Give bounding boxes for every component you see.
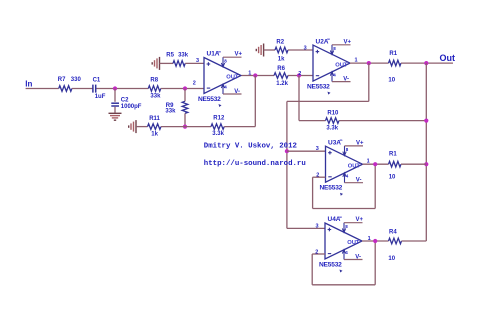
wire node to R10 bbox=[299, 120, 326, 122]
svg-text:2: 2 bbox=[315, 249, 318, 255]
wire node to R12 bbox=[185, 126, 211, 128]
wire R6 to U2A pin2 bbox=[288, 75, 313, 77]
svg-text:2: 2 bbox=[316, 173, 319, 179]
wire R8 to U1A pin2 bbox=[161, 88, 204, 90]
svg-text:10: 10 bbox=[388, 256, 395, 262]
wire ground to R5 bbox=[160, 62, 174, 64]
svg-text:3: 3 bbox=[316, 223, 319, 229]
wire R1 to Out bbox=[401, 62, 453, 64]
svg-text:3: 3 bbox=[304, 45, 307, 51]
svg-text:1k: 1k bbox=[151, 132, 158, 138]
wire U4A fb left down bbox=[311, 254, 313, 285]
svg-text:V+: V+ bbox=[235, 52, 243, 58]
wire C1 to R8 bbox=[97, 88, 149, 90]
svg-text:3: 3 bbox=[316, 146, 319, 152]
svg-text:In: In bbox=[25, 79, 32, 88]
resistor R5 bbox=[173, 61, 185, 67]
svg-text:1000pF: 1000pF bbox=[121, 104, 142, 110]
svg-text:∞: ∞ bbox=[327, 37, 330, 42]
resistor R1 (upper) bbox=[389, 60, 401, 66]
junction Out rail top bbox=[424, 61, 428, 65]
svg-text:NE5532: NE5532 bbox=[319, 262, 342, 269]
junction node R9/R11/R12 bbox=[183, 125, 187, 129]
svg-text:330: 330 bbox=[71, 77, 82, 83]
wire R2 to U2A pin3 bbox=[288, 49, 313, 51]
wire U3A fb right up bbox=[374, 164, 376, 208]
op-amp U2A (NE5532) bbox=[307, 37, 352, 95]
svg-text:1.2k: 1.2k bbox=[276, 81, 288, 87]
svg-text:1: 1 bbox=[368, 236, 371, 242]
junction U1A output bbox=[253, 73, 257, 77]
wire U1A out down to R12 bbox=[254, 76, 256, 127]
svg-text:33k: 33k bbox=[150, 93, 161, 99]
wire U2A out to R1 bbox=[350, 62, 389, 64]
junction R1 lower/Out rail bbox=[424, 162, 428, 166]
svg-text:R12: R12 bbox=[213, 116, 225, 122]
wire U4A out bbox=[362, 240, 389, 242]
wire U3A fb left down bbox=[312, 177, 314, 208]
svg-text:NE5532: NE5532 bbox=[307, 84, 330, 91]
wire U3A pin2 stub bbox=[313, 176, 326, 178]
junction U2A output bbox=[367, 61, 371, 65]
wire U3A out bbox=[363, 163, 389, 165]
junction U3A pin3 tap bbox=[285, 149, 289, 153]
wire C2 to ground bbox=[114, 107, 116, 113]
wire down to C2 bbox=[114, 89, 116, 102]
resistor R6 bbox=[274, 73, 288, 79]
resistor R1 (lower) bbox=[389, 161, 401, 167]
svg-text:C2: C2 bbox=[121, 97, 129, 103]
svg-text:NE5532: NE5532 bbox=[320, 185, 343, 192]
wire to U4A pin3 bbox=[287, 227, 325, 229]
svg-text:R10: R10 bbox=[327, 111, 339, 117]
svg-text:C1: C1 bbox=[93, 77, 101, 83]
svg-text:1k: 1k bbox=[278, 56, 285, 62]
svg-text:V+: V+ bbox=[344, 39, 352, 45]
svg-text:V-: V- bbox=[343, 76, 349, 82]
junction node R8/R9 bbox=[183, 86, 187, 90]
wire U4A fb right up bbox=[374, 241, 376, 285]
svg-text:V-: V- bbox=[355, 254, 361, 260]
svg-text:OUT: OUT bbox=[226, 75, 239, 81]
wire U4A pin2 stub bbox=[312, 253, 325, 255]
wire node to R9 bbox=[184, 89, 186, 102]
wire U1A out bbox=[242, 75, 275, 77]
ground left of R5 bbox=[152, 57, 159, 70]
wire R4 to rail bbox=[402, 240, 427, 242]
svg-text:OUT: OUT bbox=[347, 240, 360, 246]
junction node C2 tap bbox=[113, 86, 117, 90]
svg-text:V+: V+ bbox=[356, 140, 364, 146]
svg-text:http://u-sound.narod.ru: http://u-sound.narod.ru bbox=[204, 160, 306, 168]
resistor R7 bbox=[59, 86, 72, 92]
wire ground to R2 bbox=[264, 49, 275, 51]
wire ground to R11 bbox=[136, 126, 148, 128]
resistor R2 bbox=[275, 47, 288, 53]
wire In to R7 bbox=[26, 88, 59, 90]
svg-text:∞: ∞ bbox=[340, 138, 343, 143]
wire across left bbox=[287, 100, 369, 102]
junction U3A output bbox=[373, 162, 377, 166]
ground left of R2 bbox=[256, 44, 263, 57]
svg-text:1uF: 1uF bbox=[95, 94, 106, 100]
resistor R10 bbox=[326, 118, 339, 124]
svg-text:3: 3 bbox=[196, 58, 199, 64]
op-amp U1A (NE5532) bbox=[198, 49, 243, 107]
svg-text:1: 1 bbox=[248, 71, 251, 77]
svg-text:NE5532: NE5532 bbox=[198, 96, 221, 103]
svg-text:V-: V- bbox=[234, 89, 240, 95]
wire R7 to C1 bbox=[72, 88, 93, 90]
svg-text:V+: V+ bbox=[356, 217, 364, 223]
svg-text:∞: ∞ bbox=[339, 215, 342, 220]
wire R10 to Out rail bbox=[339, 120, 426, 122]
svg-text:R5: R5 bbox=[166, 53, 174, 59]
wire R9 to node bbox=[184, 113, 186, 126]
capacitor C1 bbox=[93, 85, 96, 93]
svg-text:V-: V- bbox=[356, 178, 362, 184]
wire Out rail vertical bbox=[425, 63, 427, 241]
svg-text:R2: R2 bbox=[276, 40, 284, 46]
resistor R11 bbox=[148, 124, 161, 130]
wire to U3A pin3 bbox=[287, 150, 326, 152]
wire U3A fb bottom bbox=[313, 208, 376, 210]
op-amp U4A (NE5532) bbox=[319, 215, 364, 273]
svg-text:10: 10 bbox=[388, 78, 395, 84]
svg-text:OUT: OUT bbox=[348, 163, 361, 169]
wire U2A out down bbox=[368, 63, 370, 101]
svg-text:Out: Out bbox=[440, 53, 456, 63]
svg-text:1: 1 bbox=[367, 158, 370, 164]
wire R11 to node bbox=[161, 126, 185, 128]
resistor R12 bbox=[211, 124, 224, 130]
ground left of R11 bbox=[129, 120, 136, 133]
junction U2A pin2 node bbox=[297, 73, 301, 77]
svg-text:∞: ∞ bbox=[218, 49, 221, 54]
junction U4A output bbox=[373, 239, 377, 243]
svg-text:3.3k: 3.3k bbox=[326, 126, 338, 132]
svg-text:R6: R6 bbox=[277, 66, 285, 72]
resistor R9 bbox=[182, 101, 188, 113]
svg-text:OUT: OUT bbox=[335, 62, 348, 68]
svg-text:R11: R11 bbox=[149, 116, 160, 122]
svg-text:R1: R1 bbox=[389, 51, 397, 57]
capacitor C2 bbox=[111, 103, 119, 106]
svg-text:R8: R8 bbox=[150, 77, 158, 83]
svg-text:R7: R7 bbox=[58, 77, 66, 83]
svg-text:10: 10 bbox=[389, 174, 396, 180]
svg-text:2: 2 bbox=[193, 81, 196, 87]
wire U4A fb bottom bbox=[312, 284, 375, 286]
svg-text:R4: R4 bbox=[389, 230, 397, 236]
ground below C2 bbox=[109, 113, 122, 120]
resistor R8 bbox=[148, 86, 160, 92]
svg-text:33k: 33k bbox=[178, 53, 189, 59]
svg-text:Dmitry V. Uskov, 2012: Dmitry V. Uskov, 2012 bbox=[204, 142, 297, 150]
svg-text:1: 1 bbox=[355, 57, 358, 63]
wire R1 lower to rail bbox=[401, 163, 426, 165]
svg-text:R1: R1 bbox=[389, 152, 397, 158]
resistor R4 bbox=[389, 238, 402, 244]
wire node down to R10 bbox=[298, 76, 300, 121]
junction R10/Out rail bbox=[424, 119, 428, 123]
op-amp U3A (NE5532) bbox=[320, 138, 365, 196]
wire down to U4A pin3 bbox=[286, 101, 288, 228]
wire R5 to U1A pin3 bbox=[185, 62, 204, 64]
wire R12 to U1A feedback bbox=[224, 126, 255, 128]
svg-text:3.3k: 3.3k bbox=[212, 131, 224, 137]
svg-text:33k: 33k bbox=[165, 108, 176, 114]
